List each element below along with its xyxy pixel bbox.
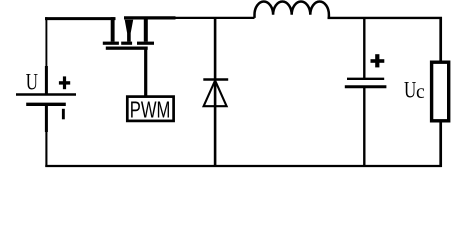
wire gate lead down to PWM	[144, 48, 147, 97]
transistor Q1 MOSFET body contact bar	[121, 42, 132, 45]
battery U top plate (+)	[16, 93, 76, 96]
wire bottom rail	[45, 165, 442, 167]
svg-text:U: U	[26, 70, 38, 96]
inductor L1 (4 humps)	[255, 1, 329, 17]
transistor Q1 MOSFET source contact bar	[103, 42, 119, 45]
wire top rail MOSFET to inductor (thin)	[175, 17, 255, 19]
wire capacitor top lead	[363, 17, 365, 79]
wire battery positive lead (thick)	[45, 66, 48, 94]
svg-text:c: c	[416, 82, 425, 103]
transistor Q1 MOSFET body arrow (pointing down)	[125, 20, 134, 42]
label + (capacitor polarity)	[371, 54, 385, 67]
label + (battery polarity)	[59, 76, 70, 89]
wire top-left horizontal from battery to MOSFET source	[45, 17, 116, 20]
wire diode top lead	[214, 17, 217, 79]
wire left frame vertical upper (thin)	[45, 17, 47, 66]
wire left frame vertical lower (thin)	[45, 132, 47, 167]
wire top rail over MOSFET body to diode/inductor	[124, 16, 176, 19]
resistor R load box	[432, 62, 449, 121]
transistor Q1 MOSFET gate line	[106, 47, 148, 50]
wire capacitor bottom lead	[363, 88, 365, 167]
wire top rail inductor to right corner	[328, 17, 443, 19]
battery U bottom plate (-)	[26, 103, 66, 106]
capacitor C1 top plate	[347, 78, 384, 80]
battery minus tick	[62, 109, 65, 120]
diode D1 cathode bar	[203, 78, 228, 81]
svg-text:U: U	[404, 77, 416, 103]
transistor Q1 MOSFET right (drain) vertical lead	[144, 17, 148, 41]
PWM control block box	[127, 97, 173, 121]
wire right frame vertical upper	[439, 17, 442, 62]
wire diode bottom lead	[214, 81, 217, 167]
svg-text:PWM: PWM	[130, 97, 171, 123]
wire battery negative lead (thick)	[45, 106, 48, 133]
wire right frame vertical lower	[439, 121, 442, 167]
transistor Q1 MOSFET drain contact bar	[137, 42, 154, 45]
transistor Q1 MOSFET left (source) vertical lead	[111, 17, 115, 41]
capacitor C1 bottom plate	[345, 85, 387, 88]
diode D1 triangle (anode below, pointing up)	[204, 81, 227, 107]
